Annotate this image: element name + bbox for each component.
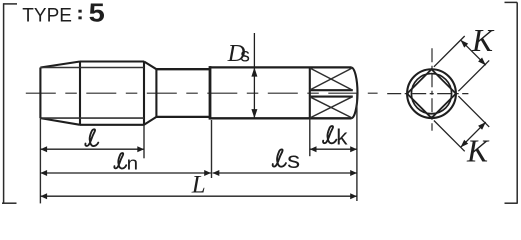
extension line at shank start [211,120,213,178]
extension line at thread end [143,125,145,159]
ls dimension [213,172,357,174]
svg-text:5: 5 [89,0,105,28]
centerline of side view [26,92,378,94]
svg-text:L: L [191,171,206,198]
end view inner circle [411,74,451,114]
l dimension [40,148,144,150]
thread minor-diameter interior lines [40,68,144,119]
svg-text:n: n [127,153,139,174]
extension line at front end [39,118,41,203]
L dimension [40,195,357,197]
Ds dimension [253,33,255,118]
end view horizontal centerline [387,93,468,95]
ln dimension [40,172,211,174]
svg-text:TYPE: TYPE [22,5,72,26]
lk dimension [310,148,357,150]
shank [210,66,351,120]
svg-text:K: K [471,23,495,58]
svg-text:s: s [240,45,250,66]
svg-text:k: k [336,124,348,149]
tap thread section outline [40,62,156,125]
extension line at tap end [356,93,358,201]
upper K dimension [434,36,489,91]
neck [156,69,210,117]
lower K dimension [434,96,489,151]
end view outer circle (shank dia) [407,69,456,118]
square drive section [310,67,358,118]
extension line at square start [309,118,311,156]
square section cross diagonals [310,68,352,118]
svg-text:s: s [287,147,300,173]
end view vertical centerline [431,48,433,130]
end view square (rotated 45) [407,69,456,118]
svg-text:K: K [466,133,490,168]
